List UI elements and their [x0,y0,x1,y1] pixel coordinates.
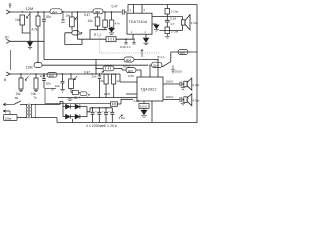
svg-text:12М: 12М [40,74,46,78]
svg-text:100,0: 100,0 [166,95,174,99]
svg-text:Тр: Тр [34,96,38,100]
svg-text:47н: 47н [115,22,120,26]
wire left vertical [10,50,12,70]
plug prong lower [3,110,10,115]
capacitor C2 10n [61,12,64,22]
choke DR6 [178,50,188,55]
fuse box 220v [4,115,18,121]
psu link box [111,102,118,107]
resistor R6 1 Om [165,27,170,34]
svg-text:4 Ом: 4 Ом [192,83,199,87]
pin 1 wire U2 right [163,83,180,85]
svg-text:0,05 0,1: 0,05 0,1 [120,45,131,49]
pointer arrow [119,115,122,118]
wire node x30 down [29,12,31,41]
wire A mid [62,11,93,13]
top supply rail [128,5,197,13]
resistor R2 [36,16,40,26]
pin 1 wire U1 [133,5,135,14]
oval aux [80,92,87,96]
pin wire U2 bottom b [151,101,153,123]
dashed enclosure [100,36,161,53]
svg-text:12М: 12М [26,66,33,70]
wire R1 bottom [22,25,30,33]
diode D1 [66,104,70,108]
choke DR4 [124,57,134,62]
bridge top row [63,106,87,108]
resistor R8 [35,74,37,78]
pin 4 wire U1 bottom [132,34,134,39]
svg-text:1 Ом: 1 Ом [171,10,178,14]
pin 7 wire U1 to speaker [152,16,182,18]
svg-text:20н: 20н [46,15,52,19]
right border / supply down [196,5,198,124]
feedback jog wire [96,68,126,70]
svg-text:4 Ом: 4 Ом [192,99,199,103]
svg-text:Вк: Вк [15,96,19,100]
small box aux2 [72,90,78,94]
ground triangle node x30 [28,42,33,46]
speaker BA2 [184,81,187,87]
capacitor C8 stub [124,39,127,44]
trimmer arrow TR1 [101,71,103,74]
svg-text:4 Ом: 4 Ом [191,21,198,25]
svg-text:ЗС: ЗС [5,36,10,40]
resistor R1 10k pot [20,15,25,25]
bridge output [87,108,90,112]
choke DR2 [93,9,103,14]
svg-text:220в: 220в [5,116,12,120]
capacitor C13 [91,108,95,123]
capacitor C15 [104,108,108,123]
choke DR1 [50,9,62,14]
switch blade SA2 [162,52,171,67]
capacitor C11 [180,97,184,102]
input arrow B [6,39,10,43]
svg-text:+: + [102,110,104,114]
wire vertical x77.5 [77,12,79,39]
wiper arrow R10 [74,76,77,80]
resistor R4b [104,12,106,20]
bridge left vertical [62,107,64,117]
boucherot chain wire top [166,5,168,9]
diode D3 [66,114,70,118]
capacitor C7 [98,74,101,98]
arrow aux [87,94,89,96]
ground symbol mid [67,98,72,101]
capacitor C7b [61,74,65,89]
wire A right [103,11,122,13]
svg-text:0,18: 0,18 [170,16,176,20]
resistor R3 trimmer [71,12,73,17]
svg-text:+: + [88,110,90,114]
svg-text:ТДА2822: ТДА2822 [140,87,156,91]
resistor R12 [113,73,115,75]
svg-text:Др7: Др7 [128,69,134,73]
junction dots [20,11,158,108]
bridge bottom row [63,116,87,118]
capacitor C4 series [122,9,127,14]
capacitor C2b oval [71,27,73,31]
speaker return wire [160,30,183,32]
speaker BA3 [184,97,187,103]
capacitor C14 [97,108,101,123]
ground speaker BA3 [181,102,185,105]
svg-text:TDA7240A: TDA7240A [129,20,148,24]
svg-text:Др4: Др4 [126,58,132,62]
pin wires U2 top [136,60,158,78]
capacitor C12 [139,104,149,109]
diode D4 [75,114,79,118]
enclosure lines [45,88,111,103]
speaker BA1 [181,20,185,25]
input arrow C [6,72,10,76]
pin 5 wire U1 ground [152,24,157,25]
capacitor C9 stub [132,39,135,44]
bridge right vertical [86,107,88,117]
svg-text:4 х 2000мкФ х 25 в: 4 х 2000мкФ х 25 в [86,124,117,128]
svg-text:0,47: 0,47 [84,71,90,75]
svg-text:Др1: Др1 [52,10,58,14]
pin 3 wire U2 right [163,99,180,101]
svg-text:4,7к: 4,7к [32,28,38,32]
plug prong upper [3,103,14,106]
op-amp U2 TDA2822 [137,77,163,101]
svg-text:+: + [95,110,97,114]
capacitor C5 [165,14,170,27]
bottom ground rail [57,122,197,124]
wire rail to U2 [134,59,158,61]
wire R2 bottom long [37,26,39,63]
svg-text:10к: 10к [15,18,21,22]
staircase wire [78,38,107,40]
svg-text:0,47: 0,47 [112,5,118,9]
switch box SA1 [106,37,116,42]
svg-text:В 1.1: В 1.1 [94,33,102,37]
pin wires U2 left [126,93,137,95]
wire input C [10,74,137,82]
wire oval left down staircase [65,33,82,45]
supply arrow [141,50,143,58]
choke DR3 [47,72,57,77]
choke DR7 [126,68,136,73]
svg-text:1: 1 [130,8,132,12]
svg-text:В: В [4,78,7,82]
wire R2 top [37,12,39,16]
svg-text:0,47: 0,47 [84,13,90,17]
secondary wires [31,101,63,106]
rail mid upper [44,59,124,61]
resistor R10 pot [70,74,72,79]
antenna mark input A [9,4,12,9]
trimmer oval TR1 [103,66,114,71]
oval DR5 [152,62,163,67]
ground speaker BA2 [181,87,185,90]
resistor R5 1 Om [165,9,170,15]
svg-text:100,0: 100,0 [166,80,174,84]
wire input A [10,11,50,13]
svg-text:+: + [108,110,110,114]
rail mid lower [42,64,148,66]
wiper arrow R1 [26,14,29,18]
ground U2 [141,110,147,114]
svg-text:3: 3 [143,8,145,12]
diode D2 [75,104,79,108]
resistor R4 10k [97,14,99,17]
svg-text:1 Ом: 1 Ом [171,30,178,34]
capacitor C6 [42,74,46,88]
svg-text:1: 1 [131,30,133,34]
svg-text:Др3: Др3 [49,73,55,77]
supply wire y52 [171,51,197,53]
svg-text:В 1.1: В 1.1 [158,55,166,59]
capacitor C1 20n [42,12,46,60]
wiper arrow R3 [75,17,77,20]
wiper arrow R7 [25,76,28,80]
resistor R11 [105,73,107,75]
svg-text:4: 4 [145,30,147,34]
svg-text:100,0: 100,0 [175,70,183,74]
svg-text:10в: 10в [55,84,60,88]
capacitor C3 47n [111,12,113,20]
svg-text:12М: 12М [104,92,110,96]
svg-text:+ Рв: + Рв [119,116,126,120]
pin 6 ground U1 bottom [145,34,147,38]
input arrow A [6,10,10,14]
capacitor C16 [110,108,114,123]
op-amp U1 TDA7240A [127,13,152,34]
svg-text:Др6: Др6 [180,51,186,55]
pin wire U2 bottom a [143,101,145,104]
svg-text:100,0: 100,0 [140,105,148,109]
pin 3 wire U1 [141,5,143,14]
resistor R7 pot [20,74,22,78]
svg-text:0,05: 0,05 [128,74,134,78]
svg-text:1к: 1к [117,79,121,83]
svg-text:10к: 10к [100,79,105,83]
svg-text:20н: 20н [46,82,51,86]
switch blade mains [14,101,27,105]
capacitor C10 [180,82,184,87]
svg-text:0,01: 0,01 [134,99,140,103]
svg-text:10к: 10к [88,19,94,23]
bridge bottom feed [72,119,74,123]
ground rail mid [58,97,137,99]
svg-text:12М: 12М [26,6,34,11]
feedback vertical from rail [95,60,97,75]
svg-text:20н: 20н [92,74,97,78]
wire input B [10,40,44,42]
cap bank rail [90,107,112,109]
svg-text:Д1-4: Д1-4 [74,96,81,100]
svg-text:4,7: 4,7 [170,22,175,26]
choke oval R2 chain [34,63,42,68]
wire box right [116,38,133,40]
